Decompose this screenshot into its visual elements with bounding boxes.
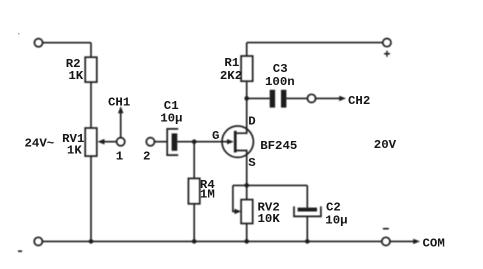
plus sign [384, 51, 390, 57]
svg-text:20V: 20V [374, 138, 397, 152]
terminal bottom-left [34, 237, 42, 245]
svg-text:10μ: 10μ [325, 214, 347, 228]
wire node to C3 [247, 97, 270, 99]
source lead and wire down [237, 151, 247, 186]
wire R1 to top rail [246, 43, 248, 56]
resistor R4 [188, 178, 199, 203]
capacitor C2 cup [294, 206, 321, 216]
potentiometer RV1 [85, 128, 97, 156]
svg-text:1M: 1M [200, 188, 215, 202]
terminal 1 (CH1) [117, 138, 125, 146]
node gate junction [192, 139, 197, 144]
wire top-left horizontal [43, 42, 91, 44]
gate arrowhead [227, 139, 234, 144]
wire R2 to RV1 [90, 82, 92, 128]
RV1 wiper wire [104, 141, 117, 143]
CH2 arrowhead [339, 96, 346, 101]
wire RV1 to bottom rail [90, 156, 92, 241]
wire top rail [247, 42, 383, 44]
terminal CH2 [307, 94, 315, 102]
terminal plus [383, 39, 391, 47]
terminal 2 [146, 138, 154, 146]
capacitor C3 plate left [270, 90, 275, 108]
wire R4 to bottom rail [193, 204, 195, 242]
COM arrow shaft [390, 240, 414, 242]
COM arrowhead [413, 239, 420, 244]
faint speck [18, 33, 20, 35]
node RV1-rail [89, 239, 94, 244]
minus above COM [383, 228, 389, 230]
RV2 wiper arrowhead [235, 209, 242, 214]
node drain-C3 [244, 96, 249, 101]
wire C1 to gate [177, 141, 228, 143]
transistor Q1 BF245 body [222, 126, 253, 157]
wire source node to RV2 [246, 185, 248, 199]
CH2 arrow shaft [316, 97, 340, 99]
capacitor C2 plate [298, 208, 317, 212]
svg-text:1K: 1K [68, 69, 83, 83]
terminal COM [382, 237, 390, 245]
svg-text:1: 1 [116, 150, 123, 164]
resistor R1 [241, 56, 253, 81]
svg-text:COM: COM [423, 236, 445, 250]
CH1 arrow shaft [120, 112, 122, 138]
svg-text:100n: 100n [265, 75, 295, 89]
wire source node to C2 [306, 185, 308, 207]
RV1 wiper arrowhead [98, 139, 105, 145]
wire bottom rail [43, 240, 382, 242]
svg-text:C2: C2 [326, 201, 341, 215]
terminal top-left [34, 39, 42, 47]
wire into R2 [90, 43, 92, 58]
capacitor C1 cup [167, 129, 178, 155]
svg-text:2K2: 2K2 [220, 69, 242, 83]
svg-text:CH2: CH2 [348, 94, 370, 108]
wire source node horizontal [233, 184, 307, 186]
transistor channel bar [234, 131, 237, 153]
svg-text:1K: 1K [67, 144, 82, 158]
wire RV2 to rail [246, 224, 248, 242]
potentiometer RV2 [241, 200, 253, 224]
svg-text:10μ: 10μ [160, 111, 182, 125]
wire terminal2 to C1 [155, 141, 168, 143]
node R4-rail [192, 239, 197, 244]
svg-text:G: G [212, 129, 219, 143]
capacitor C3 plate right [281, 90, 286, 108]
drain lead and wire up to R1 [237, 82, 247, 133]
svg-text:10K: 10K [258, 212, 281, 226]
node C2-rail [305, 239, 310, 244]
svg-text:C3: C3 [273, 62, 288, 76]
svg-text:D: D [248, 114, 255, 128]
node RV2-rail [244, 239, 249, 244]
resistor R2 [85, 57, 97, 82]
minus bottom-left [18, 250, 22, 252]
svg-text:24V~: 24V~ [25, 136, 55, 150]
wire RV2 wiper left drop [233, 185, 236, 211]
svg-text:2: 2 [143, 150, 150, 164]
svg-text:S: S [248, 156, 256, 170]
node source junction [244, 183, 249, 188]
wire C2 to rail [306, 216, 308, 241]
svg-text:CH1: CH1 [108, 95, 130, 109]
CH1 arrowhead [118, 106, 124, 113]
wire C3 to CH2 terminal [286, 97, 307, 99]
svg-text:BF245: BF245 [260, 139, 297, 153]
capacitor C1 plate [172, 133, 178, 150]
wire gate node to R4 [193, 142, 195, 179]
